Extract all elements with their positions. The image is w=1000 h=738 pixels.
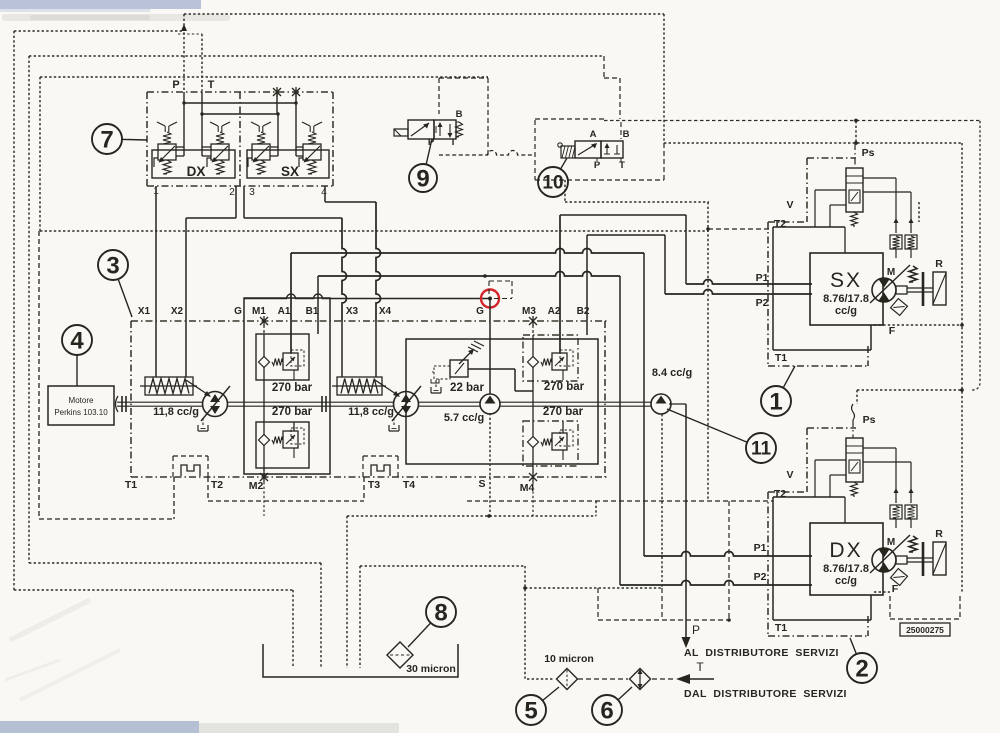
svg-text:11: 11 — [751, 439, 772, 460]
svg-text:10: 10 — [542, 173, 563, 194]
svg-text:cc/g: cc/g — [835, 575, 857, 587]
svg-text:7: 7 — [100, 126, 113, 153]
svg-text:T1: T1 — [775, 622, 787, 634]
svg-text:P: P — [172, 79, 179, 91]
svg-text:SX: SX — [281, 164, 299, 179]
svg-text:T1: T1 — [125, 479, 137, 491]
svg-text:3: 3 — [106, 252, 119, 279]
svg-text:T2: T2 — [774, 488, 786, 500]
svg-text:30 micron: 30 micron — [406, 663, 456, 675]
svg-text:R: R — [935, 258, 943, 270]
svg-text:M3: M3 — [522, 306, 536, 317]
svg-text:P1: P1 — [756, 272, 769, 284]
svg-text:8.76/17.8: 8.76/17.8 — [823, 563, 869, 575]
svg-text:8.76/17.8: 8.76/17.8 — [823, 293, 869, 305]
svg-text:M2: M2 — [249, 480, 264, 492]
svg-text:V: V — [786, 199, 793, 211]
svg-text:R: R — [935, 528, 943, 540]
svg-text:P2: P2 — [754, 571, 767, 583]
svg-text:270 bar: 270 bar — [543, 406, 584, 418]
svg-text:10 micron: 10 micron — [544, 653, 594, 665]
svg-text:SX: SX — [830, 269, 862, 292]
svg-text:A: A — [590, 129, 597, 140]
svg-text:T3: T3 — [368, 479, 380, 491]
svg-text:4: 4 — [321, 187, 327, 198]
svg-text:11,8 cc/g: 11,8 cc/g — [348, 406, 394, 418]
svg-text:T: T — [208, 79, 215, 91]
svg-text:A1: A1 — [278, 306, 291, 317]
svg-text:2: 2 — [229, 187, 235, 198]
svg-text:P: P — [692, 623, 700, 637]
svg-text:AL DISTRIBUTORE SERVIZI: AL DISTRIBUTORE SERVIZI — [684, 647, 839, 659]
svg-text:B: B — [623, 129, 630, 140]
svg-text:270 bar: 270 bar — [544, 381, 585, 393]
svg-text:4: 4 — [70, 327, 84, 354]
svg-text:11,8 cc/g: 11,8 cc/g — [153, 406, 199, 418]
svg-text:A2: A2 — [548, 306, 561, 317]
svg-text:270 bar: 270 bar — [272, 406, 313, 418]
svg-text:B2: B2 — [577, 306, 590, 317]
svg-text:G: G — [476, 306, 484, 317]
svg-text:Ps: Ps — [863, 414, 876, 426]
svg-text:9: 9 — [416, 165, 429, 192]
svg-text:Perkins 103.10: Perkins 103.10 — [54, 408, 108, 417]
svg-text:T4: T4 — [403, 479, 415, 491]
svg-text:X1: X1 — [138, 306, 151, 317]
svg-text:8.4 cc/g: 8.4 cc/g — [652, 367, 692, 379]
svg-text:M: M — [887, 267, 895, 278]
svg-text:G: G — [234, 306, 242, 317]
svg-text:T1: T1 — [775, 352, 787, 364]
svg-text:Motore: Motore — [69, 396, 94, 405]
svg-text:T: T — [619, 160, 625, 171]
svg-text:F: F — [889, 325, 896, 337]
svg-text:X4: X4 — [379, 306, 392, 317]
svg-text:270 bar: 270 bar — [272, 382, 313, 394]
svg-text:5.7 cc/g: 5.7 cc/g — [444, 412, 484, 424]
svg-text:22 bar: 22 bar — [450, 382, 484, 394]
svg-text:DAL DISTRIBUTORE SERVIZI: DAL DISTRIBUTORE SERVIZI — [684, 688, 847, 700]
svg-text:F: F — [892, 583, 899, 595]
svg-text:DX: DX — [829, 539, 862, 562]
svg-text:5: 5 — [524, 697, 537, 724]
svg-text:1: 1 — [769, 388, 782, 415]
svg-text:P: P — [594, 160, 601, 171]
svg-text:P2: P2 — [756, 297, 769, 309]
svg-text:M: M — [887, 537, 895, 548]
svg-text:T: T — [450, 137, 456, 148]
svg-text:S: S — [478, 478, 485, 490]
svg-text:cc/g: cc/g — [835, 305, 857, 317]
svg-text:2: 2 — [855, 655, 868, 682]
svg-text:X3: X3 — [346, 306, 359, 317]
svg-text:T: T — [696, 660, 704, 674]
svg-text:X2: X2 — [171, 306, 184, 317]
svg-text:B1: B1 — [306, 306, 319, 317]
svg-text:T2: T2 — [774, 218, 786, 230]
svg-text:25000275: 25000275 — [906, 625, 944, 635]
svg-text:3: 3 — [249, 187, 255, 198]
svg-text:B: B — [456, 109, 463, 120]
svg-text:T2: T2 — [211, 479, 223, 491]
svg-text:V: V — [786, 469, 793, 481]
svg-text:M1: M1 — [252, 306, 266, 317]
svg-text:8: 8 — [434, 599, 447, 626]
svg-text:6: 6 — [600, 697, 613, 724]
svg-text:DX: DX — [187, 164, 206, 179]
svg-text:M4: M4 — [520, 482, 535, 494]
svg-text:Ps: Ps — [862, 147, 875, 159]
svg-text:P1: P1 — [754, 542, 767, 554]
